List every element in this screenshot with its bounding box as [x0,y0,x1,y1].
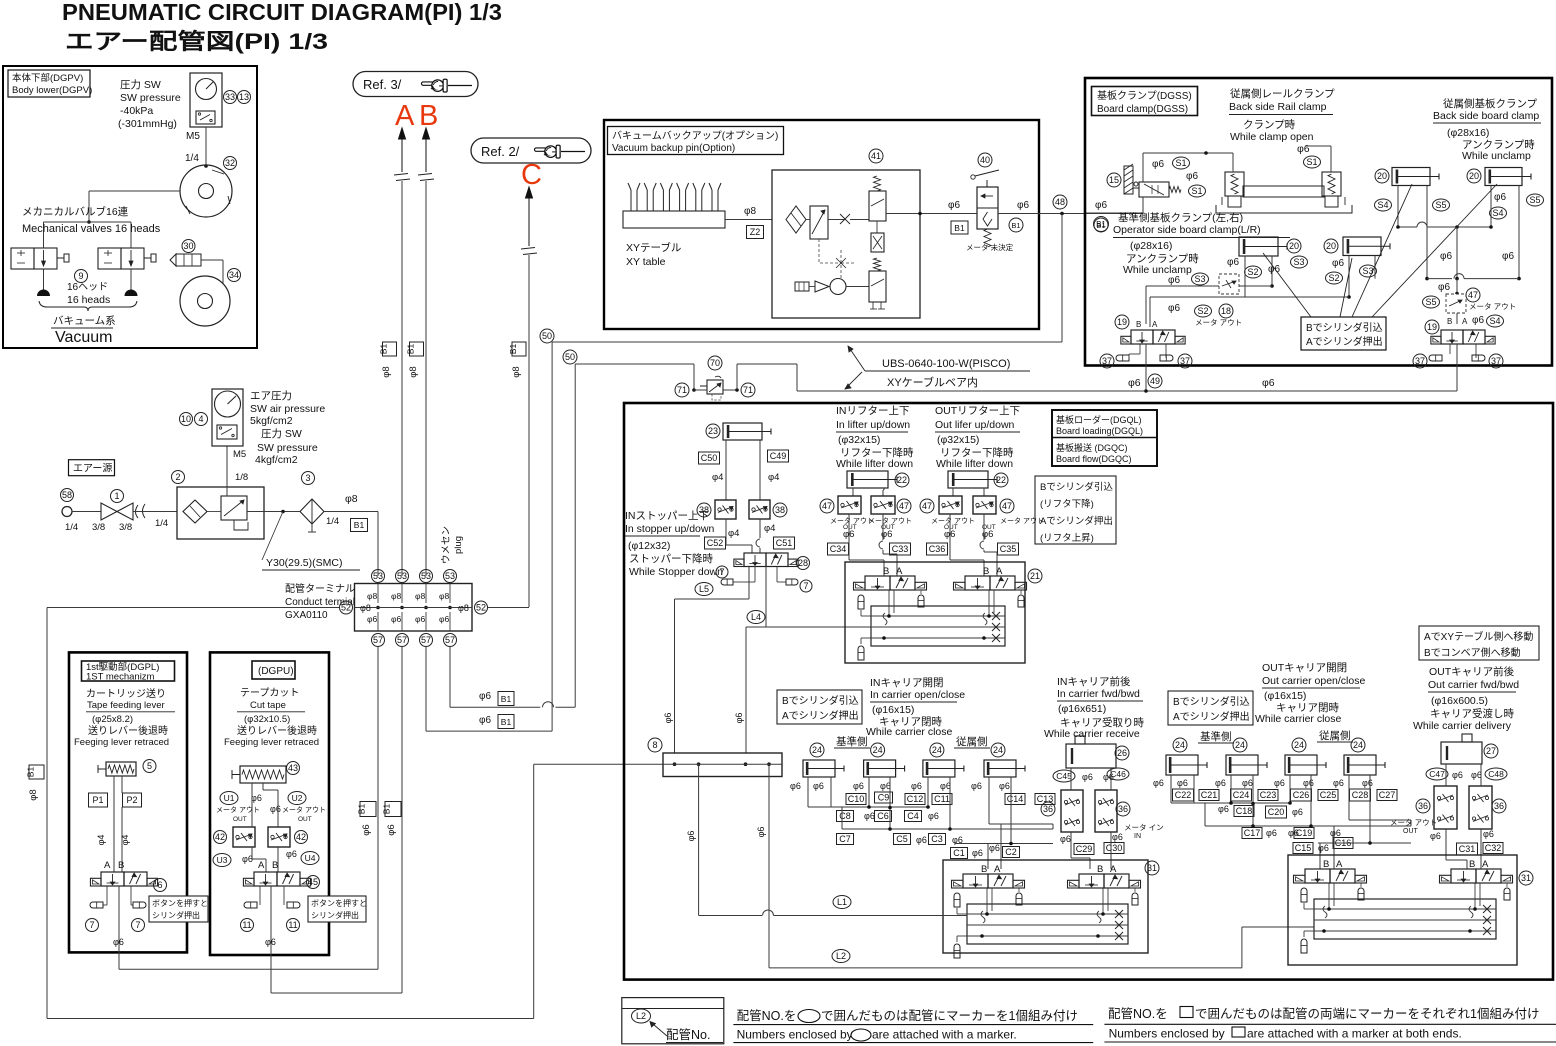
svg-text:Z2: Z2 [750,227,761,237]
svg-text:Aでシリンダ押出: Aでシリンダ押出 [1040,515,1113,527]
svg-text:24: 24 [1175,740,1185,750]
svg-text:φ6: φ6 [415,614,426,624]
svg-text:4kgf/cm2: 4kgf/cm2 [255,454,298,466]
svg-text:A: A [104,860,111,871]
legend arrow [650,1022,667,1037]
hand icon ref2 [534,145,560,158]
svg-text:B: B [1097,864,1103,875]
C tags row1 OUT [1173,789,1194,801]
svg-text:M5: M5 [233,449,246,460]
svg-text:57: 57 [373,635,383,645]
tag B1 on wire B [410,342,424,356]
suction cup 2 [125,290,138,297]
wire valve45 down [270,886,272,993]
svg-text:Feeging lever retraced: Feeging lever retraced [74,737,169,748]
svg-text:A: A [1336,859,1343,870]
dashed pilot lines [819,239,855,280]
1st mechanism box DGPL [69,652,187,952]
S labels right cluster [1375,199,1392,211]
svg-text:B: B [1469,859,1475,870]
wire valve6 down [118,886,120,969]
wire 48 down to 50a wire [1061,214,1063,343]
svg-text:φ8: φ8 [458,603,469,613]
svg-text:7: 7 [719,567,724,577]
svg-text:φ6: φ6 [999,781,1010,791]
svg-text:シリンダ押出: シリンダ押出 [152,910,200,920]
svg-text:配管ターミナル: 配管ターミナル [285,582,355,595]
tag P1 [89,793,108,807]
svg-text:Board loading(DGQL): Board loading(DGQL) [1056,426,1143,436]
wire valve15 bottom [1086,212,1143,214]
circled 58 [61,489,74,502]
svg-text:φ6: φ6 [940,781,951,791]
svg-text:3/8: 3/8 [119,522,132,533]
svg-text:Y30(29.5)(SMC): Y30(29.5)(SMC) [266,557,342,569]
valve 6 [101,872,124,886]
svg-text:φ6: φ6 [790,781,801,791]
svg-text:φ6: φ6 [1168,275,1180,286]
svg-text:Operator side board clamp(L/R): Operator side board clamp(L/R) [1113,224,1261,236]
svg-text:58: 58 [62,490,72,500]
svg-text:S2: S2 [1197,306,1208,316]
svg-text:24: 24 [1235,740,1245,750]
L4 into box21 [870,625,872,627]
C tags row4 OUT [1293,843,1313,854]
filter 3 [300,499,324,524]
mechanical valve MV1 [11,248,34,269]
svg-text:C34: C34 [830,544,847,554]
circled 71 right [741,383,755,397]
svg-text:(リフタ下降): (リフタ下降) [1040,498,1094,510]
pipe break waves [136,504,146,518]
svg-text:U3: U3 [217,855,228,865]
svg-text:4: 4 [198,414,203,424]
svg-text:C52: C52 [707,538,724,548]
note box DGPL [149,896,208,922]
svg-text:L4: L4 [751,612,761,622]
svg-text:バキュームバックアップ(オプション): バキュームバックアップ(オプション) [612,130,778,142]
svg-text:B1: B1 [382,804,392,815]
brace 16 heads [39,301,137,311]
svg-text:B: B [981,864,987,875]
svg-text:3: 3 [305,473,310,483]
svg-text:While unclamp: While unclamp [1123,264,1192,276]
svg-text:C18: C18 [1236,806,1253,816]
tag B1 col1 [360,802,376,817]
pressure switch SW1 [196,111,215,124]
gauge PG1 [196,79,217,100]
svg-text:Out carrier open/close: Out carrier open/close [1262,675,1365,687]
svg-text:φ6: φ6 [948,200,960,211]
svg-text:エアー源: エアー源 [73,462,112,475]
svg-text:キャリア受渡し時: キャリア受渡し時 [1430,707,1514,720]
svg-text:C1: C1 [953,848,965,858]
svg-text:OUT: OUT [298,816,312,823]
svg-text:基板ローダー(DGQL): 基板ローダー(DGQL) [1056,414,1142,425]
svg-text:φ6: φ6 [1472,315,1484,326]
wire muffler to pump 34 [201,259,223,261]
svg-text:C33: C33 [892,544,909,554]
svg-text:71: 71 [743,385,753,395]
Y30 leader [262,512,283,561]
cylinder 22 IN [847,471,888,488]
svg-text:Board flow(DGQC): Board flow(DGQC) [1056,454,1132,464]
circled 34 [228,269,241,282]
svg-text:B1: B1 [1096,220,1106,229]
svg-text:φ8: φ8 [28,789,39,800]
stopper wires upper [725,440,727,500]
terminal col1 wire down [377,647,379,970]
break B [418,174,432,176]
back side cylinders 20 no4 [1485,168,1522,186]
svg-text:41: 41 [871,151,881,161]
note box carrier IN [777,690,862,724]
svg-text:A: A [1462,317,1468,326]
svg-text:IN: IN [1134,833,1141,840]
svg-text:(φ16x651): (φ16x651) [1058,703,1106,715]
svg-text:In carrier fwd/bwd: In carrier fwd/bwd [1057,688,1140,700]
svg-text:テープカット: テープカット [240,687,299,699]
svg-text:配管No.: 配管No. [666,1027,710,1042]
svg-text:19: 19 [1427,322,1437,332]
spring cylinder 43 [240,766,286,783]
svg-text:C27: C27 [1379,790,1396,800]
svg-text:C23: C23 [1260,790,1277,800]
wire pump to valves [89,190,180,192]
lifter wires cyl to fc [852,488,854,496]
svg-text:φ6: φ6 [265,937,276,947]
spring block top [874,176,881,191]
svg-text:C6: C6 [877,811,889,821]
svg-text:In lifter up/down: In lifter up/down [836,419,910,431]
svg-text:φ6: φ6 [916,835,927,845]
wall mount hatch [1124,166,1133,194]
svg-text:C31: C31 [1459,844,1476,854]
valve manifold box 21 [845,562,1025,663]
svg-text:エアー配管図(PI) 1/3: エアー配管図(PI) 1/3 [65,29,328,54]
svg-text:送りレバー後退時: 送りレバー後退時 [237,724,317,737]
svg-text:φ6: φ6 [1128,377,1141,389]
svg-text:B: B [983,566,989,577]
valve 28 [744,553,766,567]
svg-text:C19: C19 [1296,828,1313,838]
svg-text:47: 47 [822,501,832,511]
svg-text:B1: B1 [406,344,416,355]
svg-text:C35: C35 [1000,544,1017,554]
svg-text:で囲んだものは配管にマーカーを1個組み付け: で囲んだものは配管にマーカーを1個組み付け [821,1008,1078,1023]
circled 50 b [563,350,577,364]
svg-text:26: 26 [1117,748,1127,758]
svg-text:φ8: φ8 [381,366,392,377]
svg-text:Back side Rail clamp: Back side Rail clamp [1229,101,1327,113]
svg-text:U2: U2 [292,793,303,803]
svg-text:C2: C2 [1005,847,1017,857]
svg-text:φ6: φ6 [1168,303,1180,314]
svg-text:Vacuum: Vacuum [55,329,113,346]
flow control 38 L [715,500,736,519]
svg-text:(φ16x15): (φ16x15) [872,704,914,716]
svg-text:B: B [419,100,438,132]
svg-text:A: A [395,100,415,132]
svg-text:24: 24 [812,745,822,755]
svg-text:S5: S5 [1425,297,1436,307]
svg-text:10: 10 [181,414,191,424]
svg-text:24: 24 [1294,740,1304,750]
cylinder 24 no2 [864,760,896,777]
svg-text:B1: B1 [954,223,965,233]
circled 15 [1107,173,1121,187]
svg-text:Vacuum backup pin(Option): Vacuum backup pin(Option) [612,143,735,154]
bus rows OUT [1171,802,1290,804]
svg-text:5: 5 [147,761,152,771]
svg-text:While carrier delivery: While carrier delivery [1413,720,1512,732]
svg-text:S5: S5 [1529,195,1540,205]
arrow A [399,128,406,139]
svg-text:φ4: φ4 [96,835,106,846]
svg-text:B: B [1136,320,1141,329]
svg-text:2: 2 [175,472,180,482]
svg-text:φ6: φ6 [686,831,696,842]
svg-text:(リフタ上昇): (リフタ上昇) [1040,533,1094,544]
label Body lower(DGPV) [8,70,90,97]
stopper supply wires [748,567,750,600]
cylinder 23 [723,423,762,440]
label DGPU [252,661,295,679]
svg-text:47: 47 [922,501,932,511]
manifold 8 [663,753,782,777]
svg-text:7: 7 [803,581,808,591]
cylinder 24 no1 [803,760,835,777]
svg-text:φ6: φ6 [1483,829,1494,839]
svg-text:While Stopper down: While Stopper down [629,566,723,578]
svg-text:(φ28x16): (φ28x16) [1130,240,1172,252]
svg-text:φ6: φ6 [1333,778,1344,788]
svg-text:C51: C51 [776,538,793,548]
svg-text:B: B [272,860,278,871]
svg-text:24: 24 [873,745,883,755]
tag C50 [699,452,720,464]
C tags row3 OUT [1242,828,1262,839]
svg-text:C22: C22 [1175,790,1192,800]
svg-text:φ6: φ6 [251,793,262,803]
svg-text:φ8: φ8 [345,493,358,505]
svg-text:16ヘッド: 16ヘッド [67,282,108,293]
wire MV1 to suction cup [43,269,45,293]
svg-text:C12: C12 [907,794,924,804]
svg-text:57: 57 [397,635,407,645]
svg-text:φ6: φ6 [972,848,983,858]
valve 19 no2 [1425,320,1439,334]
svg-text:SW air pressure: SW air pressure [250,403,325,415]
manifold of box 31a [967,904,1128,944]
svg-text:B1: B1 [379,344,389,355]
svg-text:φ6: φ6 [1227,257,1239,268]
svg-text:34: 34 [229,270,239,280]
svg-text:メータ アウト: メータ アウト [216,805,260,814]
mechanical valve MV2 [98,248,121,269]
tag B1 on wire A [383,342,397,356]
air gauge 10/4 box [212,389,243,446]
svg-text:φ6: φ6 [1218,804,1229,814]
svg-text:メータ アウト: メータ アウト [282,805,326,814]
svg-text:Out carrier fwd/bwd: Out carrier fwd/bwd [1428,679,1519,691]
circled 40 [978,153,992,167]
arrow C [526,187,533,198]
svg-text:53: 53 [445,571,455,581]
tag B1 backup [951,221,968,234]
manifold of box 31b [1314,899,1496,939]
valve28 mufflers [754,567,756,583]
svg-text:(φ16x15): (φ16x15) [1264,690,1306,702]
tag Z2 [747,226,764,239]
svg-text:5kgf/cm2: 5kgf/cm2 [250,415,293,427]
cylinder 22 OUT [948,471,988,488]
left long wire down [46,608,48,1019]
svg-text:(φ16x600.5): (φ16x600.5) [1431,695,1488,707]
svg-text:φ6: φ6 [361,824,372,835]
svg-text:22: 22 [897,475,907,485]
wire comb to unit [725,219,772,221]
label 1st DGPL [82,661,175,681]
svg-text:基板搬送 (DGQC): 基板搬送 (DGQC) [1056,442,1128,453]
svg-text:1/4: 1/4 [65,522,78,533]
terminal internal wires [377,584,379,604]
tag C51 [774,537,795,549]
C tags row1 IN [846,794,866,805]
flow control 36 IN pair [1061,790,1083,832]
svg-text:UBS-0640-100-W(PISCO): UBS-0640-100-W(PISCO) [882,358,1010,370]
svg-text:A: A [258,860,265,871]
svg-text:従属側レールクランプ: 従属側レールクランプ [1230,87,1335,100]
svg-text:メータ アウト: メータ アウト [1469,302,1516,311]
svg-text:XYケーブルベア内: XYケーブルベア内 [887,375,978,389]
svg-text:S3: S3 [1293,257,1304,267]
svg-text:φ6: φ6 [971,781,982,791]
svg-text:S2: S2 [1247,267,1258,277]
svg-text:φ6: φ6 [1330,828,1341,838]
svg-text:Board clamp(DGSS): Board clamp(DGSS) [1097,104,1188,115]
svg-text:C29: C29 [1076,844,1093,854]
svg-text:C30: C30 [1106,843,1123,853]
svg-text:are attached with a marker at: are attached with a marker at both ends. [1247,1027,1462,1041]
vacuum pump 34 [180,276,230,326]
label box DGQL DGQC [1052,410,1157,466]
svg-text:S3: S3 [1194,274,1205,284]
flow control 36 OUT pair [1434,786,1457,829]
svg-text:Bでシリンダ引込: Bでシリンダ引込 [1173,695,1250,708]
legend sample box [622,998,724,1044]
Ref. 2 stadium [471,138,591,163]
svg-text:φ6: φ6 [1095,200,1107,211]
svg-text:B1: B1 [501,694,512,704]
svg-text:S1: S1 [1306,157,1317,167]
svg-text:S4: S4 [1489,316,1500,326]
svg-text:B: B [118,860,124,871]
svg-text:メータ アウト: メータ アウト [1195,318,1242,327]
svg-text:11: 11 [288,920,297,930]
tag C49 [768,450,789,462]
svg-text:OUTキャリア開閉: OUTキャリア開閉 [1262,662,1347,674]
svg-text:C49: C49 [770,451,787,461]
svg-text:φ6: φ6 [1303,778,1314,788]
svg-text:C47: C47 [1429,769,1445,779]
cylinder 24 no2 [1226,755,1258,775]
svg-text:GXA0110: GXA0110 [285,610,328,621]
L2 oval legend [632,1009,651,1023]
svg-text:メータ アウト: メータ アウト [1390,818,1437,827]
cylinder 20 s2s3 no2 [1343,237,1381,256]
L5 oval [695,583,713,596]
svg-text:S1: S1 [1191,186,1202,196]
svg-text:C4: C4 [907,811,919,821]
svg-text:36: 36 [1118,804,1128,814]
svg-text:C20: C20 [1268,807,1285,817]
note box carrier OUT [1168,691,1253,725]
flow valve 47 dashed [1446,294,1466,313]
svg-text:P2: P2 [126,795,137,805]
valve 40 spring [984,229,991,247]
svg-text:INストッパー上下: INストッパー上下 [625,510,709,522]
svg-text:φ6: φ6 [439,614,450,624]
muffler 30 [176,254,201,266]
svg-text:L2: L2 [636,1011,646,1021]
svg-text:φ6: φ6 [1502,251,1514,262]
svg-text:φ6: φ6 [1332,258,1344,269]
circled 71 left [675,383,689,397]
tag B1 air line [351,519,368,532]
svg-text:(φ25x8.2): (φ25x8.2) [92,714,133,725]
mufflers 37 no1 [1139,344,1141,354]
svg-text:Bでシリンダ引込: Bでシリンダ引込 [1306,321,1383,334]
svg-text:(φ32x15): (φ32x15) [838,434,880,446]
circled 48 [1053,195,1067,209]
svg-text:7: 7 [89,920,94,930]
svg-text:C26: C26 [1293,790,1310,800]
svg-text:24: 24 [932,745,942,755]
svg-text:φ6: φ6 [1452,770,1463,780]
wire 52 right to C line [488,607,529,609]
svg-text:Ref. 2/: Ref. 2/ [481,144,520,159]
svg-text:φ6: φ6 [1186,171,1198,182]
svg-text:φ6: φ6 [1266,828,1277,838]
svg-text:φ8: φ8 [415,591,426,601]
svg-text:42: 42 [296,832,306,842]
arrow B [423,128,430,139]
svg-text:Back side board clamp: Back side board clamp [1433,110,1539,122]
svg-text:Bでシリンダ引込: Bでシリンダ引込 [782,694,859,707]
svg-text:φ8: φ8 [511,366,522,377]
svg-text:φ6: φ6 [1152,159,1164,170]
bottom long wire [47,1018,534,1020]
svg-text:50: 50 [542,331,552,341]
svg-text:While carrier close: While carrier close [1255,713,1342,725]
hand icon ref3 [421,79,447,92]
svg-text:C45: C45 [1056,771,1072,781]
svg-text:U4: U4 [305,853,316,863]
svg-text:INキャリア前後: INキャリア前後 [1057,675,1131,688]
svg-text:37: 37 [1102,356,1112,366]
circled 52 left [340,601,353,614]
svg-text:U1: U1 [224,793,235,803]
svg-text:20: 20 [1326,241,1336,251]
svg-text:47: 47 [1468,290,1478,300]
bus B y297 [1150,296,1349,298]
tag P2 [123,793,142,807]
svg-text:(-301mmHg): (-301mmHg) [118,118,177,130]
svg-text:A: A [896,566,903,577]
svg-text:7: 7 [135,920,140,930]
svg-text:φ6: φ6 [1242,778,1253,788]
